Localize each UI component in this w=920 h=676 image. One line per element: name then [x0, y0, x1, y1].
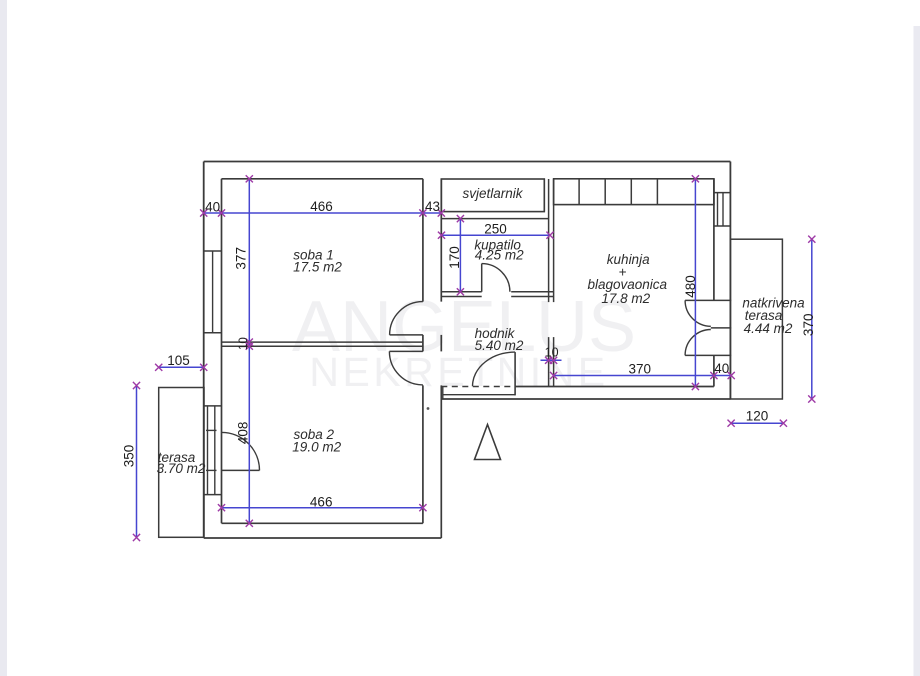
balcony assembly: tick lower — [206, 469, 217, 471]
dim marker 120l — [728, 420, 735, 427]
svg-text:40: 40 — [714, 361, 729, 376]
window right: pane line 2 — [722, 193, 724, 226]
dimension line kupatilo 170 — [459, 219, 461, 292]
dim marker 170t — [457, 215, 464, 222]
wall: bottom outer edge — [441, 398, 730, 400]
wall: kupatilo bottom inner, left of door — [441, 291, 481, 293]
wall: hodnik-kuhinja partition right edge upper — [553, 179, 555, 302]
dim marker 370t — [808, 236, 815, 243]
door soba2: leaf — [389, 350, 423, 352]
door soba1: swing arc — [390, 302, 423, 335]
dim marker top — [200, 209, 207, 216]
wall: kupatilo top — [441, 218, 548, 220]
svg-text:120: 120 — [746, 409, 769, 424]
dim marker 105l — [155, 364, 162, 371]
door kupatilo: swing arc — [482, 264, 510, 292]
wall: hodnik-kuhinja partition left edge lower — [548, 337, 550, 386]
svg-text:5.40 m2: 5.40 m2 — [475, 338, 524, 353]
wall: hodnik-kuhinja partition left edge upper — [548, 179, 550, 302]
wall: entrance dashed opening line — [441, 386, 515, 388]
wall: soba2 bottom outer edge — [204, 537, 442, 539]
wall: soba right inner, mid stub — [422, 335, 424, 352]
window right: bottom cap — [714, 225, 731, 227]
svg-text:105: 105 — [167, 353, 190, 368]
wall: soba right outer, mid stub — [440, 335, 442, 352]
window right: top cap — [714, 192, 731, 194]
dim marker 10r — [550, 357, 557, 364]
french door kitchen: middle meeting line — [711, 327, 731, 329]
svg-text:370: 370 — [801, 314, 816, 337]
wall: kitchen right inner, upper segment — [713, 179, 715, 301]
stray dot — [427, 407, 430, 410]
dim marker top — [218, 209, 225, 216]
svg-text:250: 250 — [484, 221, 507, 236]
wall: partition soba1/soba2 top edge — [222, 341, 423, 343]
dimension line kitchen 480 — [694, 179, 696, 387]
window soba1: top cap — [204, 250, 222, 252]
natkrivena terasa box (right) — [730, 239, 782, 399]
closet divider 2 — [604, 179, 606, 205]
terasa box (left) — [159, 388, 204, 538]
balcony door leaf soba2 — [222, 469, 260, 471]
dimension line terasa 105 — [159, 366, 204, 368]
dimension line partition 10 — [541, 359, 562, 361]
balcony assembly: pane line 1 — [207, 406, 209, 495]
dim marker 250r — [546, 232, 553, 239]
scan edge left — [0, 0, 7, 676]
dim marker 350t — [133, 382, 140, 389]
balcony assembly: top cap — [204, 405, 222, 407]
svg-text:350: 350 — [122, 445, 137, 468]
svjetlarnik shaft box — [441, 179, 544, 212]
door soba2: swing arc — [389, 351, 423, 385]
dim marker 10l — [545, 357, 552, 364]
french door kitchen: bottom cap — [685, 354, 731, 356]
svg-text:466: 466 — [310, 495, 333, 510]
dimension line kupatilo 250 — [442, 234, 551, 236]
wall: left inner edge — [221, 179, 223, 524]
french door kitchen: top cap — [685, 299, 731, 301]
dim marker top — [438, 209, 445, 216]
wall: kitchen right inner, lower segment — [713, 355, 715, 386]
wall: hodnik-kuhinja partition right edge lower — [553, 337, 555, 386]
svg-text:370: 370 — [629, 362, 652, 377]
svg-text:19.0 m2: 19.0 m2 — [292, 439, 341, 454]
scan edge right — [914, 26, 920, 676]
dim marker 466bl — [218, 504, 225, 511]
wall: bottom inner edge right of entrance — [515, 386, 714, 388]
window soba1: bottom cap — [204, 332, 222, 334]
svg-text:NEKRETNINE: NEKRETNINE — [309, 349, 608, 395]
dim marker leftv — [246, 175, 253, 182]
dimension line natkrivena 120 — [731, 422, 783, 424]
dim marker leftv — [246, 339, 253, 346]
wall: soba2 bottom inner edge — [222, 522, 423, 524]
dim marker 350b — [133, 534, 140, 541]
dim marker 370b — [808, 395, 815, 402]
closet divider 1 — [578, 179, 580, 205]
balcony assembly: bottom cap — [204, 494, 222, 496]
svg-text:408: 408 — [235, 422, 250, 445]
dimension line terasa 350 — [136, 386, 138, 538]
wall: kupatilo bottom outer, right of door — [511, 296, 553, 298]
svg-text:377: 377 — [233, 247, 248, 270]
dimension line natkrivena 370 — [811, 239, 813, 399]
svg-text:3.70 m2: 3.70 m2 — [157, 461, 206, 476]
dimension line kitchen 370+40 — [554, 375, 732, 377]
balcony assembly: pane line 2 — [214, 406, 216, 495]
svg-text:10: 10 — [545, 346, 559, 360]
svg-text:10: 10 — [238, 337, 250, 350]
svg-text:480: 480 — [683, 275, 698, 298]
entrance threshold left tick — [442, 387, 444, 400]
balcony assembly: tick upper — [206, 429, 217, 431]
dim marker leftv — [246, 520, 253, 527]
kitchen closet row — [554, 179, 714, 205]
dimension line left vertical 377+10+408 — [248, 179, 250, 524]
wall: kitchen right outer edge — [729, 162, 731, 400]
dim marker 466br — [419, 504, 426, 511]
svg-text:170: 170 — [447, 246, 462, 269]
wall: soba right outer, upper segment — [440, 179, 442, 302]
svg-text:466: 466 — [310, 199, 333, 214]
svg-text:svjetlarnik: svjetlarnik — [462, 186, 523, 201]
wall: soba right inner, lower segment — [422, 385, 424, 523]
balcony door swing arc soba2 — [222, 432, 260, 470]
dim marker leftv — [246, 343, 253, 350]
window soba1: pane line — [212, 251, 214, 333]
svg-text:17.8 m2: 17.8 m2 — [601, 291, 650, 306]
dim marker top — [419, 209, 426, 216]
dim marker 480b — [692, 383, 699, 390]
dim marker kit — [710, 372, 717, 379]
dim marker 170b — [457, 288, 464, 295]
dimension line top 40+466+43 — [204, 212, 442, 214]
dim marker 480t — [692, 175, 699, 182]
dim marker 120r — [780, 420, 787, 427]
wall: kupatilo bottom inner, right of door — [511, 291, 553, 293]
dim marker kit — [728, 372, 735, 379]
door kupatilo: leaf — [481, 264, 483, 292]
svg-text:4.25 m2: 4.25 m2 — [475, 248, 524, 263]
wall: kupatilo bottom outer, left of door — [441, 296, 481, 298]
wall: soba right inner, upper segment — [422, 179, 424, 302]
wall: soba1 top inner edge — [222, 178, 423, 180]
closet divider 4 — [656, 179, 658, 205]
entrance door: swing arc — [473, 352, 516, 386]
north arrow triangle — [475, 425, 501, 460]
closet divider 3 — [630, 179, 632, 205]
french door kitchen: lower swing arc — [685, 330, 711, 356]
svg-text:17.5 m2: 17.5 m2 — [293, 260, 342, 275]
wall: soba right outer, lower segment — [440, 385, 442, 538]
dimension line soba2 466 — [222, 507, 423, 509]
svg-text:43: 43 — [425, 199, 440, 214]
entrance threshold line — [443, 394, 515, 396]
dim marker 250l — [438, 232, 445, 239]
entrance door: leaf — [514, 352, 516, 395]
french door kitchen: upper swing arc — [685, 300, 711, 326]
wall: outer top edge — [204, 161, 731, 163]
wall: partition soba1/soba2 bottom edge — [222, 345, 423, 347]
svg-text:40: 40 — [205, 199, 220, 214]
svg-text:blagovaonica: blagovaonica — [588, 277, 668, 292]
dim marker kit — [550, 372, 557, 379]
wall: svjetlarnik right edge — [543, 179, 545, 212]
door soba1: leaf — [390, 334, 423, 336]
svg-text:kuhinja: kuhinja — [607, 252, 650, 267]
wall: left outer edge — [203, 162, 205, 539]
dim marker 105r — [200, 364, 207, 371]
svg-text:4.44 m2: 4.44 m2 — [744, 321, 793, 336]
window right: pane line 1 — [717, 193, 719, 226]
